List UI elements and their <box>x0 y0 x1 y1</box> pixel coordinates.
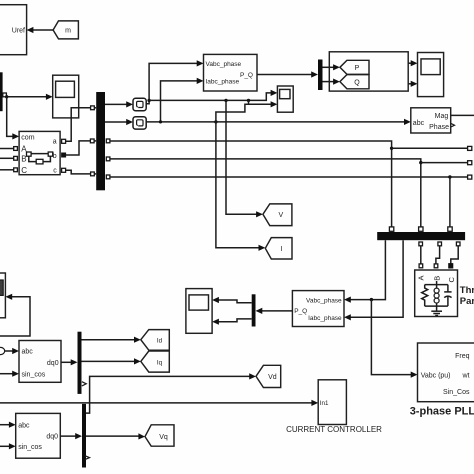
goto tag Id <box>141 330 170 351</box>
svg-text:A: A <box>417 275 426 280</box>
svg-text:Mag: Mag <box>435 113 449 120</box>
svg-text:Vabc (pu): Vabc (pu) <box>421 372 451 379</box>
wire branch to goto tag V <box>226 100 263 217</box>
Phase unconnected chevron <box>451 123 455 127</box>
svg-text:c: c <box>53 167 57 174</box>
svg-text:Three-: Three- <box>460 285 474 296</box>
svg-text:abc: abc <box>18 422 30 429</box>
wire SC2 to Iabc_phase input and long line to Mag block <box>146 78 411 125</box>
abc to dq0 block 2 <box>16 413 61 458</box>
wire breaker b to mux1 port 2 <box>66 139 97 155</box>
svg-text:CURRENT CONTROLLER: CURRENT CONTROLLER <box>286 425 382 434</box>
svg-text:Id: Id <box>157 337 163 344</box>
wire to sin_cos input of dq0 block1 <box>0 371 19 377</box>
wire container to scope TR input 2 <box>408 81 417 87</box>
load capacitor <box>444 285 451 307</box>
breaker icon inside block <box>27 152 53 164</box>
svg-text:Iabc_phase: Iabc_phase <box>308 315 342 322</box>
wire bar to load terminal B <box>436 246 440 264</box>
breaker right port c <box>62 168 66 172</box>
wire bar to power block2 Vabc input <box>344 240 385 303</box>
svg-text:Freq: Freq <box>455 353 470 360</box>
abc to dq0 block 1 <box>19 341 61 383</box>
wire P_Q output to demux bar <box>257 71 318 77</box>
svg-text:P_Q: P_Q <box>294 308 307 315</box>
wire left bar to Scope1 <box>5 94 53 100</box>
three-phase breaker block <box>19 131 60 175</box>
demux bar 2b <box>252 294 256 326</box>
wire power block2 P_Q output to demux2b <box>256 308 293 314</box>
wire breaker a to mux1 port 1 <box>66 106 97 141</box>
Mag output wire to right edge <box>451 114 474 116</box>
svg-text:I: I <box>281 246 283 253</box>
svg-text:a: a <box>53 138 57 145</box>
breaker right port a <box>62 139 66 143</box>
bus line phase c from mux1 <box>106 175 472 231</box>
wire branch to breaker com input <box>7 97 19 140</box>
svg-text:Iq: Iq <box>157 359 163 366</box>
load terminal squares <box>419 264 453 268</box>
3-phase PLL block <box>418 343 474 402</box>
svg-text:3-phase PLL: 3-phase PLL <box>410 406 474 418</box>
wire demux1 to goto Id <box>82 337 141 343</box>
svg-text:C: C <box>447 277 456 283</box>
wire branch to goto tag I <box>216 122 265 251</box>
demux bar PQ <box>318 60 323 91</box>
svg-text:com: com <box>21 135 34 142</box>
wire m to Uref <box>27 27 53 33</box>
wire inport to abc dq0 block1 <box>5 348 19 354</box>
power measurement block 1 <box>204 54 258 91</box>
wire dq0 block1 output to demux bar1 <box>61 359 78 365</box>
svg-text:C: C <box>21 166 27 175</box>
demux2 unconnected chevron <box>85 456 89 460</box>
svg-text:Sin_Cos: Sin_Cos <box>443 389 470 396</box>
wire to sin_cos input of dq0 block2 <box>0 443 16 449</box>
bus line phase a from mux1 <box>106 139 472 231</box>
wire SC1 to Vabc_phase input and long bus to scope <box>146 60 277 103</box>
goto tag Vd <box>256 365 281 387</box>
demux1 unconnected chevron <box>82 382 86 386</box>
wire demux to goto Q <box>323 79 340 85</box>
bus bar top right <box>377 232 465 240</box>
wire bar to load terminal C <box>451 246 458 264</box>
svg-text:Q: Q <box>354 80 360 87</box>
svg-text:Iabc_phase: Iabc_phase <box>206 79 240 86</box>
inport circle <box>0 347 5 354</box>
wire breaker c to mux1 port 3 <box>66 170 97 176</box>
block Uref outport <box>0 5 27 55</box>
demux bar 1 <box>78 332 82 394</box>
wire demux1 to goto Iq <box>82 358 141 364</box>
Mag Phase block <box>411 108 451 133</box>
breaker right port b filled <box>62 153 66 157</box>
scope TR <box>418 53 444 97</box>
svg-text:B: B <box>21 154 26 163</box>
svg-text:P_Q: P_Q <box>240 72 253 79</box>
svg-text:Parall: Parall <box>460 296 474 307</box>
wire container to scope TR input 1 <box>408 60 417 66</box>
goto tag V <box>263 204 292 226</box>
goto tag Q <box>340 75 369 89</box>
svg-text:V: V <box>278 212 283 219</box>
svg-text:m: m <box>65 28 71 35</box>
svg-text:wt: wt <box>462 372 470 379</box>
wire branch to scope1b second input <box>216 100 278 122</box>
current controller block <box>318 380 346 425</box>
svg-text:abc: abc <box>413 120 425 127</box>
svg-text:Vq: Vq <box>159 434 168 441</box>
wire demux to goto P <box>323 64 340 70</box>
svg-text:In1: In1 <box>320 400 329 407</box>
scope3 at left edge <box>0 273 5 318</box>
bar output ports to RLC load <box>419 242 460 246</box>
wire to abc input of dq0 block2 <box>0 422 16 428</box>
long wire to current controller In1 <box>0 400 318 406</box>
bus line phase b from mux1 <box>106 157 472 231</box>
scope Scope1 <box>53 75 79 118</box>
goto tag Vq <box>145 425 174 446</box>
svg-text:sin_cos: sin_cos <box>18 444 42 451</box>
label Three-Phase Parallel RLC Load <box>460 285 474 307</box>
load resistor <box>422 285 428 307</box>
signal conversion block SC2 <box>133 117 146 129</box>
svg-text:dq0: dq0 <box>47 360 59 367</box>
load inductor <box>434 285 439 307</box>
container rect for P Q tags <box>329 52 408 91</box>
wire bar to load terminal A <box>420 246 422 264</box>
svg-text:Vabc_phase: Vabc_phase <box>306 298 342 305</box>
wire demux bar2 step to goto Vd <box>86 373 256 413</box>
wire mux1 to signal block SC1 <box>105 101 133 107</box>
load bottom rail and ground <box>425 306 448 315</box>
svg-text:Vd: Vd <box>268 374 277 381</box>
signal conversion block SC1 <box>133 98 146 110</box>
svg-text:Vabc_phase: Vabc_phase <box>206 61 242 68</box>
goto tag I <box>265 238 292 259</box>
feedback wire into scope3 <box>0 294 30 336</box>
wire branch to PLL input <box>371 300 417 378</box>
svg-text:sin_cos: sin_cos <box>22 372 46 379</box>
svg-text:P: P <box>355 65 360 72</box>
wire demux2b to scope2 input 2 <box>212 319 252 325</box>
mux bar left edge <box>0 72 3 111</box>
port on left-edge mux bar <box>3 93 7 97</box>
wire demux2 to goto Vq <box>86 433 145 439</box>
breaker left input ports and stubs <box>0 147 17 172</box>
svg-text:abc: abc <box>22 349 34 356</box>
wire bar to power block2 Iabc input <box>344 240 403 320</box>
scope1b <box>277 86 293 112</box>
svg-text:Uref: Uref <box>12 28 25 35</box>
load icon top rail <box>425 281 448 285</box>
three-phase parallel RLC load block <box>415 270 458 317</box>
svg-text:b: b <box>53 153 57 160</box>
svg-text:dq0: dq0 <box>46 434 58 441</box>
svg-text:Phase: Phase <box>429 124 449 131</box>
goto tag P <box>340 60 369 74</box>
wire demux2b to scope2 input 1 <box>212 297 252 303</box>
power measurement block 2 mirrored <box>292 291 344 327</box>
wire mux1 to signal block SC2 <box>105 119 133 125</box>
wire dq0 block2 output to demux bar2 <box>60 433 82 439</box>
svg-text:B: B <box>432 276 441 281</box>
demux bar 2 <box>82 404 86 468</box>
mux1 bus bar <box>96 92 105 190</box>
goto tag Iq <box>141 351 170 372</box>
scope2 <box>186 289 212 334</box>
from tag m <box>53 21 78 39</box>
